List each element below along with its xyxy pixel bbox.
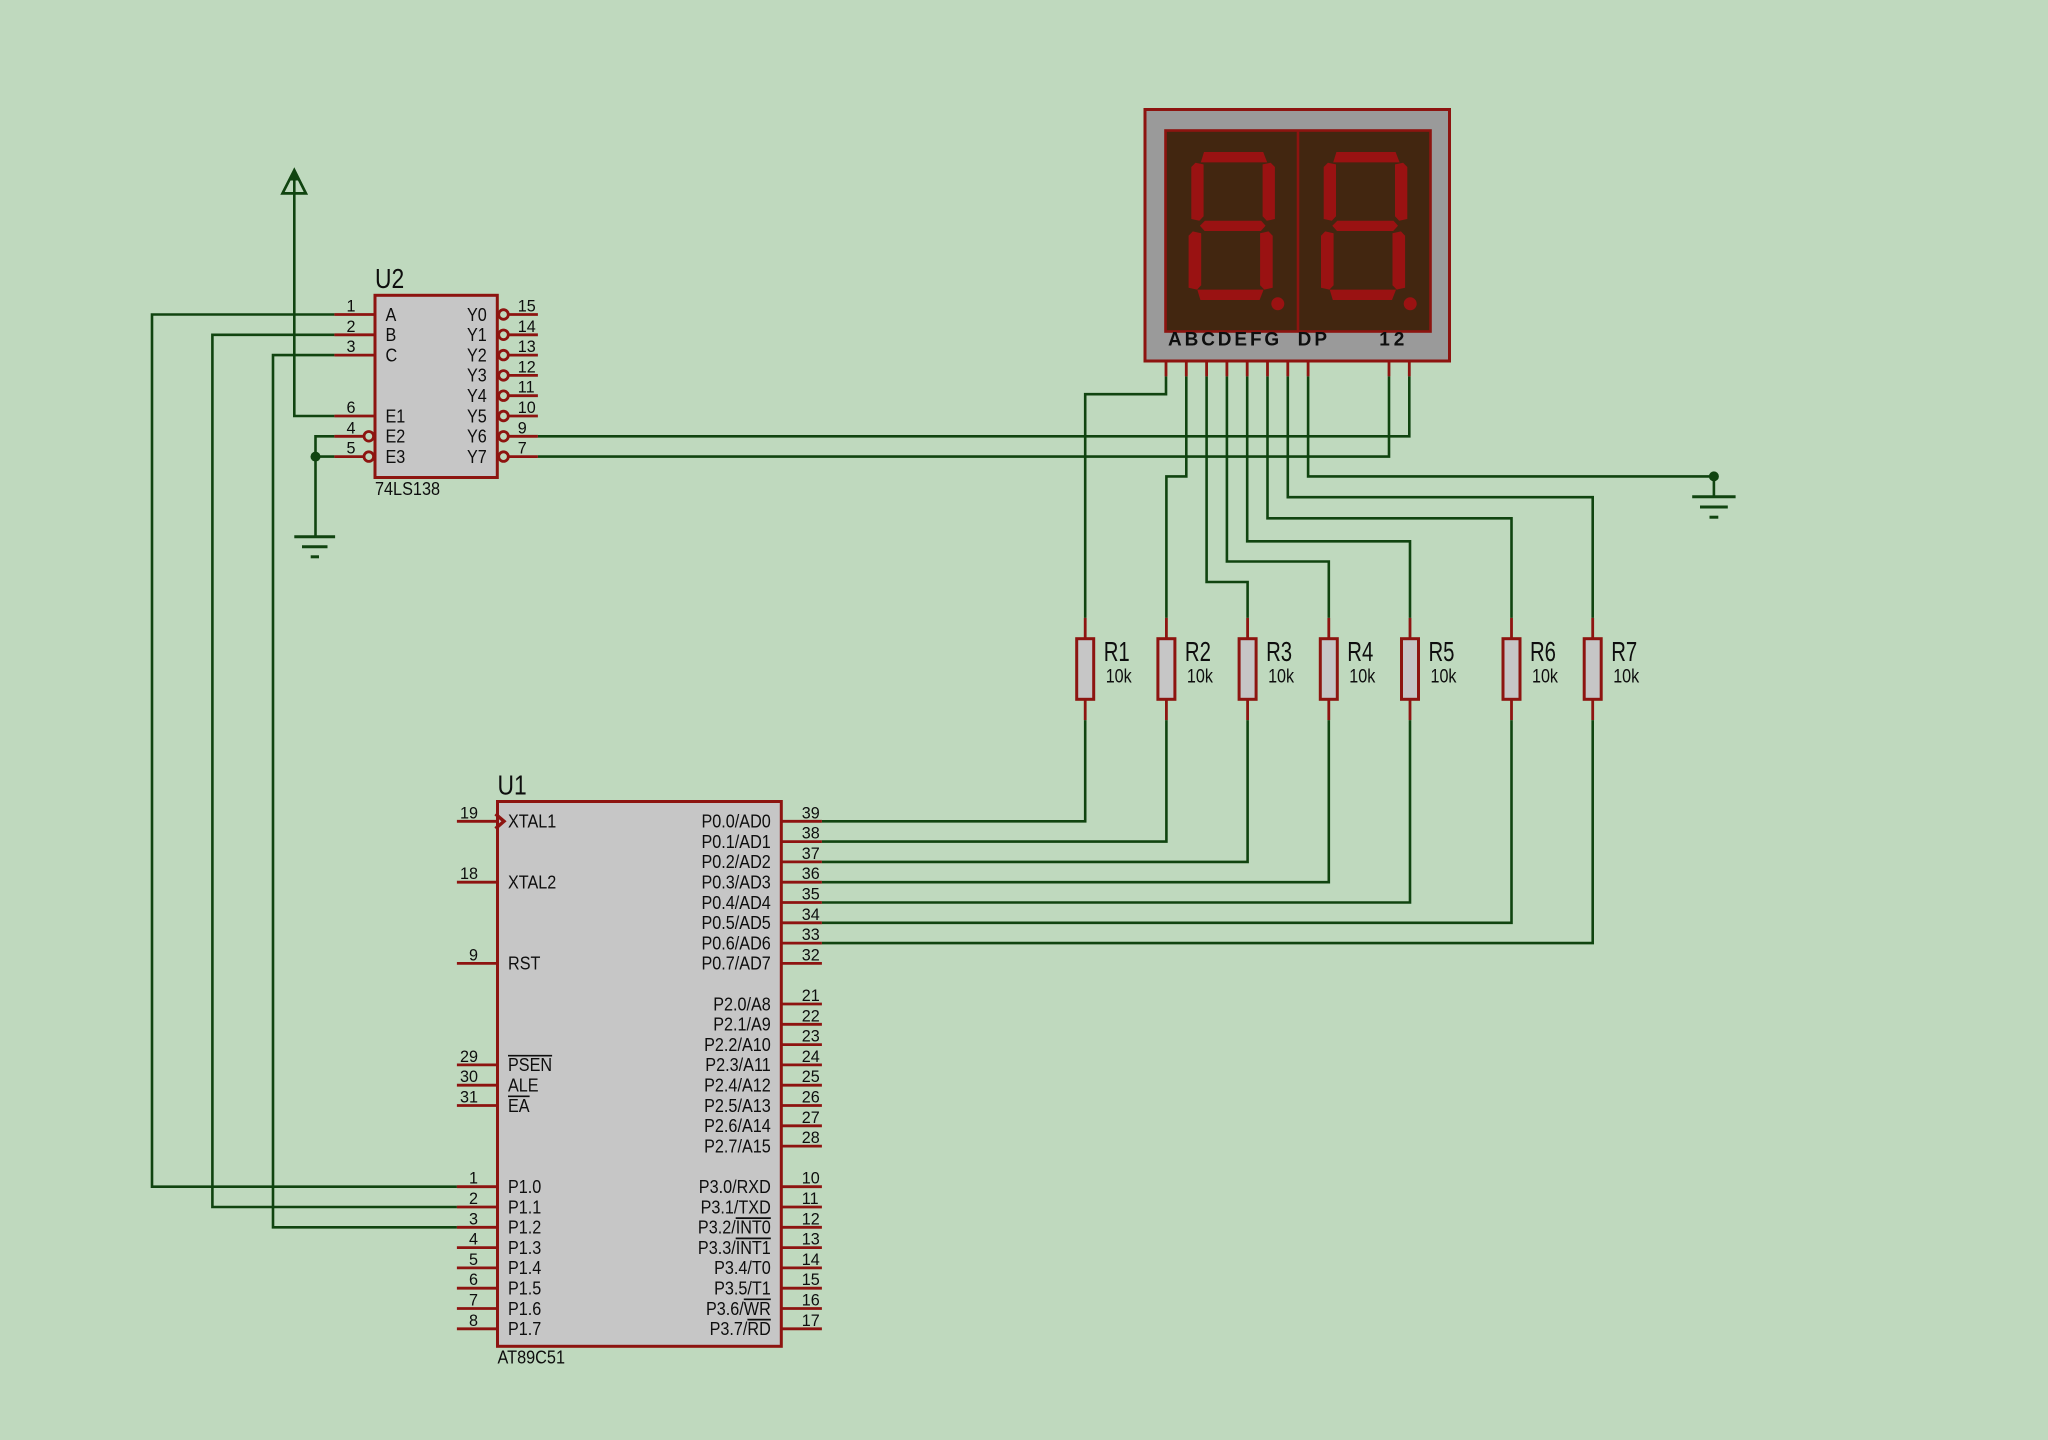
svg-text:4: 4	[347, 418, 356, 437]
svg-text:12: 12	[802, 1209, 820, 1228]
wire display D to R4	[1227, 376, 1329, 618]
svg-text:6: 6	[347, 398, 356, 417]
svg-text:38: 38	[802, 824, 820, 843]
svg-text:1: 1	[347, 297, 356, 316]
svg-text:P0.0/AD0: P0.0/AD0	[702, 812, 771, 832]
U1 pin 37 P0.2/AD2	[702, 844, 822, 872]
U1 pin 32 P0.7/AD7	[702, 945, 822, 973]
svg-text:A: A	[386, 305, 397, 325]
resistor R1 10k	[1077, 618, 1132, 720]
svg-text:P2.7/A15: P2.7/A15	[704, 1136, 771, 1156]
U2 pin 14 Y1	[467, 317, 538, 345]
svg-text:P1.1: P1.1	[508, 1197, 541, 1217]
svg-text:12: 12	[518, 357, 536, 376]
svg-text:P1.7: P1.7	[508, 1319, 541, 1339]
display pin E stub	[1246, 360, 1249, 377]
wire junction to ground left	[314, 457, 317, 537]
resistor R3 10k	[1239, 618, 1294, 720]
U1 pin 23 P2.2/A10	[704, 1027, 822, 1055]
svg-text:P1.6: P1.6	[508, 1299, 541, 1319]
svg-text:P2.0/A8: P2.0/A8	[713, 994, 771, 1014]
svg-text:18: 18	[460, 864, 478, 883]
resistor R4 10k	[1320, 618, 1375, 720]
svg-text:E3: E3	[386, 447, 406, 467]
U1 pin 18 XTAL2	[457, 864, 556, 892]
U1 pin 4 P1.3	[457, 1230, 541, 1258]
junction dot at U2.E3 net	[311, 452, 321, 462]
svg-text:5: 5	[469, 1250, 478, 1269]
svg-text:3: 3	[347, 337, 356, 356]
wire display G to R7	[1288, 376, 1593, 618]
U1 pin 22 P2.1/A9	[713, 1006, 822, 1034]
svg-text:EA: EA	[508, 1096, 530, 1116]
svg-text:P0.6/AD6: P0.6/AD6	[702, 933, 771, 953]
svg-text:P2.3/A11: P2.3/A11	[705, 1055, 771, 1075]
U1 pin 16 P3.6/WR	[706, 1291, 822, 1319]
display pin D stub	[1226, 360, 1229, 377]
svg-text:37: 37	[802, 844, 820, 863]
resistor R6 10k	[1503, 618, 1558, 720]
svg-text:P0.4/AD4: P0.4/AD4	[702, 893, 771, 913]
svg-text:31: 31	[460, 1088, 478, 1107]
svg-text:P1.4: P1.4	[508, 1258, 541, 1278]
U2 pin 12 Y3	[467, 357, 538, 385]
svg-text:4: 4	[469, 1230, 478, 1249]
svg-text:10k: 10k	[1106, 666, 1132, 688]
U1 pin 9 RST	[457, 945, 541, 973]
U1 pin 3 P1.2	[457, 1209, 541, 1237]
display digit 2 segments	[1321, 152, 1417, 310]
svg-text:C: C	[386, 345, 398, 365]
svg-text:16: 16	[802, 1291, 820, 1310]
U1 pin 31 EA	[457, 1088, 530, 1116]
U2 pin 13 Y2	[467, 337, 538, 365]
wire R4 to U1.P0.3	[822, 720, 1329, 882]
svg-text:5: 5	[347, 439, 356, 458]
svg-text:10: 10	[518, 398, 536, 417]
svg-text:29: 29	[460, 1047, 478, 1066]
U1 pin 35 P0.4/AD4	[702, 885, 822, 913]
U1 pin 14 P3.4/T0	[714, 1250, 822, 1278]
U1 pin 6 P1.5	[457, 1270, 541, 1298]
U1 pin 28 P2.7/A15	[704, 1128, 822, 1156]
svg-text:R4: R4	[1347, 636, 1373, 667]
svg-text:25: 25	[802, 1067, 820, 1086]
wire R6 to U1.P0.5	[822, 720, 1512, 923]
power symbol VCC arrow	[283, 170, 306, 193]
svg-text:P1.2: P1.2	[508, 1218, 541, 1238]
U2 pin 1 A	[334, 297, 396, 325]
U1 pin 30 ALE	[457, 1067, 539, 1095]
IC U1 AT89C51 microcontroller	[498, 769, 782, 1367]
U1 pin 21 P2.0/A8	[713, 986, 822, 1014]
svg-text:28: 28	[802, 1128, 820, 1147]
display pin F stub	[1266, 360, 1269, 377]
svg-text:P1.5: P1.5	[508, 1279, 541, 1299]
junction dot at DP ground net	[1709, 471, 1719, 481]
U1 pin 13 P3.3/INT1	[698, 1230, 822, 1258]
U1 pin 26 P2.5/A13	[704, 1088, 822, 1116]
U2 pin 6 E1	[334, 398, 405, 426]
svg-text:27: 27	[802, 1108, 820, 1127]
svg-text:Y3: Y3	[467, 366, 487, 386]
U1 pin 1 P1.0	[457, 1169, 541, 1197]
svg-text:RST: RST	[508, 954, 540, 974]
wire U2.Y7 to display pin1	[538, 376, 1389, 456]
svg-text:P0.1/AD1: P0.1/AD1	[702, 832, 771, 852]
U1 pin 27 P2.6/A14	[704, 1108, 822, 1136]
svg-text:30: 30	[460, 1067, 478, 1086]
svg-text:E2: E2	[386, 427, 406, 447]
svg-text:P3.3/INT1: P3.3/INT1	[698, 1238, 771, 1258]
svg-text:Y0: Y0	[467, 305, 487, 325]
U1 pin 8 P1.7	[457, 1311, 541, 1339]
svg-text:24: 24	[802, 1047, 820, 1066]
svg-text:P2.1/A9: P2.1/A9	[713, 1015, 771, 1035]
resistor R2 10k	[1158, 618, 1213, 720]
svg-text:Y2: Y2	[467, 345, 487, 365]
display pin A stub	[1165, 360, 1168, 377]
U1 pin 38 P0.1/AD1	[702, 824, 822, 852]
U2 pin 3 C	[334, 337, 397, 365]
svg-text:Y4: Y4	[467, 386, 487, 406]
U1 pin 39 P0.0/AD0	[702, 803, 822, 831]
svg-text:P3.7/RD: P3.7/RD	[710, 1319, 771, 1339]
svg-text:U1: U1	[498, 769, 527, 800]
U1 pin 34 P0.5/AD5	[702, 905, 822, 933]
svg-text:17: 17	[802, 1311, 820, 1330]
display digit 1 segments	[1189, 152, 1285, 310]
svg-text:P0.3/AD3: P0.3/AD3	[702, 873, 771, 893]
svg-text:AT89C51: AT89C51	[498, 1348, 566, 1368]
svg-text:E1: E1	[386, 406, 406, 426]
svg-text:XTAL1: XTAL1	[508, 812, 556, 832]
display pin G stub	[1286, 360, 1289, 377]
wire display E to R5	[1247, 376, 1410, 618]
wire display B to R2	[1166, 376, 1186, 618]
svg-text:2: 2	[469, 1189, 478, 1208]
U1 pin 17 P3.7/RD	[710, 1311, 822, 1339]
svg-text:R6: R6	[1530, 636, 1556, 667]
svg-text:10k: 10k	[1268, 666, 1294, 688]
svg-text:22: 22	[802, 1006, 820, 1025]
svg-text:11: 11	[802, 1189, 819, 1208]
svg-text:39: 39	[802, 803, 820, 822]
svg-text:R3: R3	[1266, 636, 1292, 667]
svg-text:2: 2	[347, 317, 356, 336]
wire U2.E2 to junction	[316, 436, 335, 456]
wire display C to R3	[1207, 376, 1248, 618]
wire U1.P1.0 to U2.A	[152, 315, 457, 1187]
resistor R5 10k	[1402, 618, 1457, 720]
U1 pin 10 P3.0/RXD	[699, 1169, 822, 1197]
svg-text:7: 7	[469, 1291, 478, 1310]
svg-text:26: 26	[802, 1088, 820, 1107]
svg-text:1: 1	[1379, 330, 1390, 351]
svg-text:74LS138: 74LS138	[375, 479, 440, 499]
svg-text:11: 11	[518, 378, 535, 397]
svg-text:U2: U2	[375, 263, 404, 294]
svg-text:6: 6	[469, 1270, 478, 1289]
svg-text:XTAL2: XTAL2	[508, 873, 556, 893]
svg-text:10k: 10k	[1532, 666, 1558, 688]
wire U2.E3 to junction	[316, 455, 335, 458]
svg-text:R2: R2	[1185, 636, 1211, 667]
U2 pin 11 Y4	[467, 378, 538, 406]
svg-text:P3.1/TXD: P3.1/TXD	[701, 1197, 771, 1217]
svg-text:P1.3: P1.3	[508, 1238, 541, 1258]
U2 pin 7 Y7	[467, 439, 538, 467]
U1 pin 33 P0.6/AD6	[702, 925, 822, 953]
svg-text:35: 35	[802, 885, 820, 904]
svg-text:19: 19	[460, 803, 478, 822]
svg-text:15: 15	[518, 297, 536, 316]
svg-text:10k: 10k	[1349, 666, 1375, 688]
U1 pin 19 XTAL1	[457, 803, 556, 831]
svg-text:PSEN: PSEN	[508, 1055, 552, 1075]
svg-text:21: 21	[802, 986, 820, 1005]
svg-text:Y6: Y6	[467, 427, 487, 447]
svg-text:15: 15	[802, 1270, 820, 1289]
svg-text:R7: R7	[1611, 636, 1637, 667]
resistor R7 10k	[1584, 618, 1639, 720]
svg-text:Y5: Y5	[467, 406, 487, 426]
svg-text:B: B	[386, 325, 397, 345]
display pin B stub	[1185, 360, 1188, 377]
svg-text:Y7: Y7	[467, 447, 487, 467]
svg-text:14: 14	[518, 317, 536, 336]
U1 pin 12 P3.2/INT0	[698, 1209, 822, 1237]
wire U2.Y6 to display pin2	[538, 376, 1409, 436]
svg-text:R1: R1	[1104, 636, 1130, 667]
display pin DP stub	[1307, 360, 1310, 377]
svg-text:1: 1	[469, 1169, 478, 1188]
svg-text:32: 32	[802, 945, 820, 964]
svg-text:Y1: Y1	[467, 325, 487, 345]
wire R3 to U1.P0.2	[822, 720, 1248, 862]
U1 pin 5 P1.4	[457, 1250, 541, 1278]
svg-text:R5: R5	[1429, 636, 1455, 667]
U1 pin 7 P1.6	[457, 1291, 541, 1319]
7-segment display module (2 digits)	[1145, 110, 1450, 362]
wire U1.P1.2 to U2.C	[273, 355, 457, 1227]
ground symbol left	[294, 537, 335, 557]
svg-text:P0.7/AD7: P0.7/AD7	[702, 954, 771, 974]
U2 pin 9 Y6	[467, 418, 538, 446]
svg-text:P3.5/T1: P3.5/T1	[714, 1279, 771, 1299]
wire R2 to U1.P0.1	[822, 720, 1167, 842]
display pin labels ABCDEFG DP 1 2	[1168, 330, 1404, 351]
wire VCC to U2.E1	[294, 177, 334, 416]
svg-text:P2.6/A14: P2.6/A14	[704, 1116, 771, 1136]
U1 pin 11 P3.1/TXD	[701, 1189, 822, 1217]
U1 pin 24 P2.3/A11	[705, 1047, 822, 1075]
svg-text:34: 34	[802, 905, 820, 924]
display pin 1 (digit common) stub	[1388, 360, 1391, 377]
svg-text:8: 8	[469, 1311, 478, 1330]
U1 pin 36 P0.3/AD3	[702, 864, 822, 892]
svg-text:36: 36	[802, 864, 820, 883]
U1 pin 2 P1.1	[457, 1189, 541, 1217]
U2 pin 10 Y5	[467, 398, 538, 426]
svg-text:10k: 10k	[1613, 666, 1639, 688]
U2 pin 15 Y0	[467, 297, 538, 325]
svg-text:23: 23	[802, 1027, 820, 1046]
wire display F to R6	[1268, 376, 1512, 618]
svg-text:P2.4/A12: P2.4/A12	[704, 1076, 771, 1096]
ground symbol right	[1692, 476, 1735, 517]
svg-text:9: 9	[469, 945, 478, 964]
display pin C stub	[1205, 360, 1208, 377]
svg-text:ALE: ALE	[508, 1076, 539, 1096]
svg-text:P2.2/A10: P2.2/A10	[704, 1035, 771, 1055]
svg-text:9: 9	[518, 418, 527, 437]
svg-text:10k: 10k	[1187, 666, 1213, 688]
svg-text:2: 2	[1394, 330, 1405, 351]
svg-text:P3.2/INT0: P3.2/INT0	[698, 1218, 771, 1238]
IC U2 74LS138 decoder	[375, 263, 497, 499]
svg-text:33: 33	[802, 925, 820, 944]
svg-text:P0.2/AD2: P0.2/AD2	[702, 852, 771, 872]
svg-text:13: 13	[802, 1230, 820, 1249]
svg-text:P3.4/T0: P3.4/T0	[714, 1258, 771, 1278]
svg-text:P3.6/WR: P3.6/WR	[706, 1299, 771, 1319]
wire display A to R1	[1085, 376, 1166, 618]
svg-text:7: 7	[518, 439, 527, 458]
U1 pin 29 PSEN	[457, 1047, 552, 1075]
svg-text:P3.0/RXD: P3.0/RXD	[699, 1177, 771, 1197]
svg-text:P1.0: P1.0	[508, 1177, 541, 1197]
display pin 2 (digit common) stub	[1408, 360, 1411, 377]
wire display DP to ground	[1308, 376, 1714, 476]
svg-text:14: 14	[802, 1250, 820, 1269]
svg-text:13: 13	[518, 337, 536, 356]
svg-text:P2.5/A13: P2.5/A13	[704, 1096, 771, 1116]
wire R5 to U1.P0.4	[822, 720, 1410, 902]
wire U1.P1.1 to U2.B	[212, 335, 457, 1207]
U1 pin 25 P2.4/A12	[704, 1067, 822, 1095]
svg-text:10k: 10k	[1431, 666, 1457, 688]
U2 pin 2 B	[334, 317, 396, 345]
wire R1 to U1.P0.0	[822, 720, 1085, 821]
svg-text:10: 10	[802, 1169, 820, 1188]
svg-text:P0.5/AD5: P0.5/AD5	[702, 913, 771, 933]
U2 pin 4 E2	[334, 418, 405, 446]
U1 pin 15 P3.5/T1	[714, 1270, 822, 1298]
svg-text:3: 3	[469, 1209, 478, 1228]
U2 pin 5 E3	[334, 439, 405, 467]
wire R7 to U1.P0.6	[822, 720, 1593, 943]
